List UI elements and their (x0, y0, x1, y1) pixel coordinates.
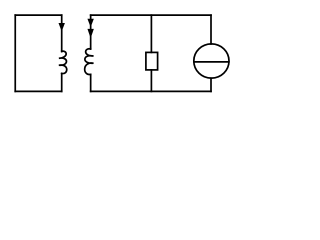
wire: left loop right side upper segment (61, 15, 63, 51)
wire: top bus (91, 14, 211, 16)
wire: resistor branch upper segment (150, 15, 152, 52)
resistor R (146, 52, 158, 70)
current source bar (194, 61, 229, 63)
current arrow i2 head 2 (secondary branch) (87, 29, 93, 38)
wire: left loop top side (15, 14, 61, 16)
wire: left loop left side (14, 15, 16, 91)
current arrow i1 (primary branch) (59, 23, 65, 32)
wire: secondary branch upper segment (90, 15, 92, 49)
wire: left loop right side lower segment (61, 73, 63, 91)
wire: resistor branch lower segment (150, 70, 152, 92)
wire: source branch lower segment (210, 78, 212, 91)
current source circle (194, 44, 229, 78)
inductor L2 (secondary winding) (85, 49, 94, 75)
current arrow i2 head 1 (secondary branch) (87, 19, 93, 27)
wire: bottom bus (91, 90, 211, 92)
wire: source branch upper segment (210, 15, 212, 44)
inductor L1 (primary winding) (59, 51, 67, 73)
wire: left loop bottom side (15, 90, 61, 92)
wire: secondary branch lower segment (90, 74, 92, 91)
